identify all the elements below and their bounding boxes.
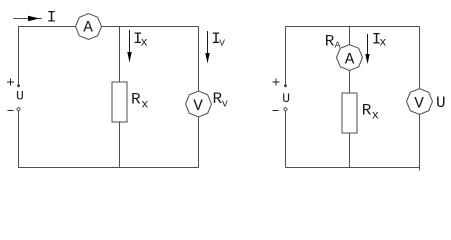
svg-text:R: R [131, 91, 141, 109]
svg-text:U: U [282, 91, 290, 106]
svg-text:V: V [222, 99, 228, 110]
svg-text:x: x [379, 35, 386, 49]
svg-text:A: A [83, 19, 93, 37]
wire: right circuit bottom return [286, 167, 420, 169]
source terminal + dot (left circuit) [17, 84, 20, 87]
wire: left circuit voltmeter branch upper [198, 27, 200, 92]
svg-text:R: R [325, 33, 335, 51]
wire: left circuit Rx branch lower [119, 122, 121, 168]
wire: left circuit left vertical upper [18, 27, 20, 85]
svg-text:x: x [372, 109, 379, 123]
wire: right circuit voltmeter vertical lower [419, 115, 421, 168]
svg-text:V: V [219, 38, 225, 49]
voltmeter U (right circuit) [407, 89, 433, 115]
wire: left circuit Rx branch upper [119, 27, 121, 83]
current arrow Ix (right circuit) [365, 34, 369, 64]
wire: left circuit left vertical lower [18, 111, 20, 168]
svg-text:U: U [436, 94, 446, 112]
wire: right circuit left vertical lower [285, 111, 287, 168]
current arrow Iv (left circuit voltmeter current) [205, 31, 209, 64]
source terminal - ring (right circuit) [284, 108, 287, 111]
wire: right circuit left vertical upper [285, 27, 287, 85]
plus sign of source U (left circuit) [7, 79, 14, 86]
minus sign of source U (right circuit) [273, 110, 279, 112]
voltmeter RV (left circuit) [186, 91, 212, 117]
junction stub at bottom right node [419, 168, 421, 171]
resistor Rx (left circuit) [112, 82, 127, 122]
svg-text:U: U [16, 88, 24, 103]
source terminal - ring (left circuit) [17, 108, 20, 111]
svg-text:R: R [362, 101, 372, 119]
wire: left circuit bottom return [18, 167, 199, 169]
wire: right circuit ammeter branch upper [349, 27, 351, 46]
source terminal + dot (right circuit) [284, 84, 287, 87]
minus sign of source U (left circuit) [8, 110, 14, 112]
svg-text:R: R [213, 90, 223, 108]
ammeter A with internal resistance RA (right circuit) [337, 45, 363, 71]
wire: right circuit voltmeter vertical upper [419, 27, 421, 90]
svg-text:A: A [335, 40, 341, 51]
svg-text:x: x [141, 97, 148, 111]
svg-text:I: I [47, 9, 57, 27]
resistor Rx (right circuit) [342, 93, 357, 133]
wire: right circuit ammeter to Rx [349, 71, 351, 94]
svg-text:A: A [345, 50, 355, 68]
svg-text:x: x [141, 36, 148, 50]
wire: left circuit voltmeter branch lower [198, 117, 200, 168]
current arrow I (left circuit input) [13, 16, 42, 21]
wire: left circuit top, ammeter to node A [102, 26, 199, 28]
wire: right circuit top [286, 26, 420, 28]
wire: left circuit top, source to ammeter [18, 26, 76, 28]
current arrow Ix (left circuit) [127, 30, 131, 63]
svg-text:V: V [193, 97, 203, 115]
svg-text:V: V [414, 94, 424, 112]
ammeter A (left circuit) [76, 14, 102, 40]
plus sign of source U (right circuit) [273, 79, 280, 86]
wire: right circuit Rx branch lower [349, 133, 351, 168]
